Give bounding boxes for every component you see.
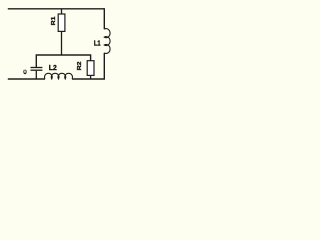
wire right side top lead [103, 8, 105, 29]
label L1 [94, 40, 101, 48]
label C [23, 69, 28, 74]
label L2 [49, 64, 57, 72]
wire bottom rail left segment [8, 78, 45, 80]
wire bottom rail right segment [72, 78, 105, 80]
svg-text:R2: R2 [77, 61, 83, 71]
wire middle rail with corners to C and R2 [36, 55, 90, 67]
resistor R2 [87, 61, 94, 79]
svg-text:R1: R1 [51, 16, 57, 26]
resistor R1 [58, 9, 65, 55]
svg-text:C: C [23, 69, 28, 74]
label R1 [51, 16, 57, 26]
svg-text:L2: L2 [49, 64, 57, 72]
inductor L2 [45, 73, 73, 79]
label R2 [77, 61, 83, 71]
wire top rail [8, 8, 105, 10]
wire right side bottom lead [103, 53, 105, 80]
capacitor C [31, 68, 43, 80]
inductor L1 [104, 29, 110, 54]
svg-text:L1: L1 [94, 40, 101, 48]
